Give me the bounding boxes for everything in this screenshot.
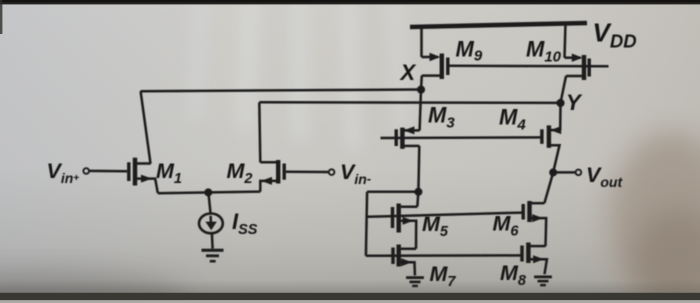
wire M3/M4 gate bus xyxy=(381,136,542,139)
terminal Vout xyxy=(576,170,582,176)
node tail xyxy=(204,188,212,196)
wire M5/M6 gate bus xyxy=(367,213,523,217)
wire M9/M10 gate bus xyxy=(450,65,609,68)
svg-text:Y: Y xyxy=(566,90,583,115)
bottom shadow band xyxy=(0,280,700,293)
wire M7/M8 gate bus xyxy=(366,254,521,257)
transistor M2 xyxy=(259,102,328,191)
transistor M7 xyxy=(393,245,416,276)
wire junction link left xyxy=(367,191,418,194)
wire Vout xyxy=(553,171,575,174)
ground (under M7) xyxy=(406,278,424,286)
transistor M10 xyxy=(561,23,590,103)
transistor M4 xyxy=(542,103,561,172)
terminal Vin+ xyxy=(83,168,89,174)
wire node X to M1 drain xyxy=(141,90,421,92)
transistor M3 xyxy=(396,126,419,191)
transistor M5 xyxy=(393,192,419,249)
transistor M1 xyxy=(89,91,158,193)
top dark strip xyxy=(0,0,700,4)
node X xyxy=(417,86,425,94)
node mirror junction xyxy=(414,188,422,196)
ground (under ISS) xyxy=(202,234,224,262)
VDD power rail xyxy=(410,23,587,27)
transistor M6 xyxy=(523,172,553,246)
wire left vertical to M7 gate xyxy=(366,192,367,256)
node Y xyxy=(556,99,564,107)
node Vout xyxy=(549,168,557,176)
transistor M9 xyxy=(421,27,448,89)
svg-text:X: X xyxy=(399,60,417,85)
wire tail node xyxy=(158,192,260,194)
bottom dark strip xyxy=(0,293,700,300)
right brown blob xyxy=(610,132,700,303)
transistor M8 xyxy=(522,243,547,275)
wire node Y to M2 drain xyxy=(259,101,560,104)
current source ISS xyxy=(199,192,223,233)
faint screen moire streaks xyxy=(190,0,407,150)
bottom-left corner shadow xyxy=(0,274,190,303)
terminal Vin- xyxy=(329,169,335,175)
ground (under M8) xyxy=(534,277,552,285)
node X to M3 source wire xyxy=(420,90,421,131)
